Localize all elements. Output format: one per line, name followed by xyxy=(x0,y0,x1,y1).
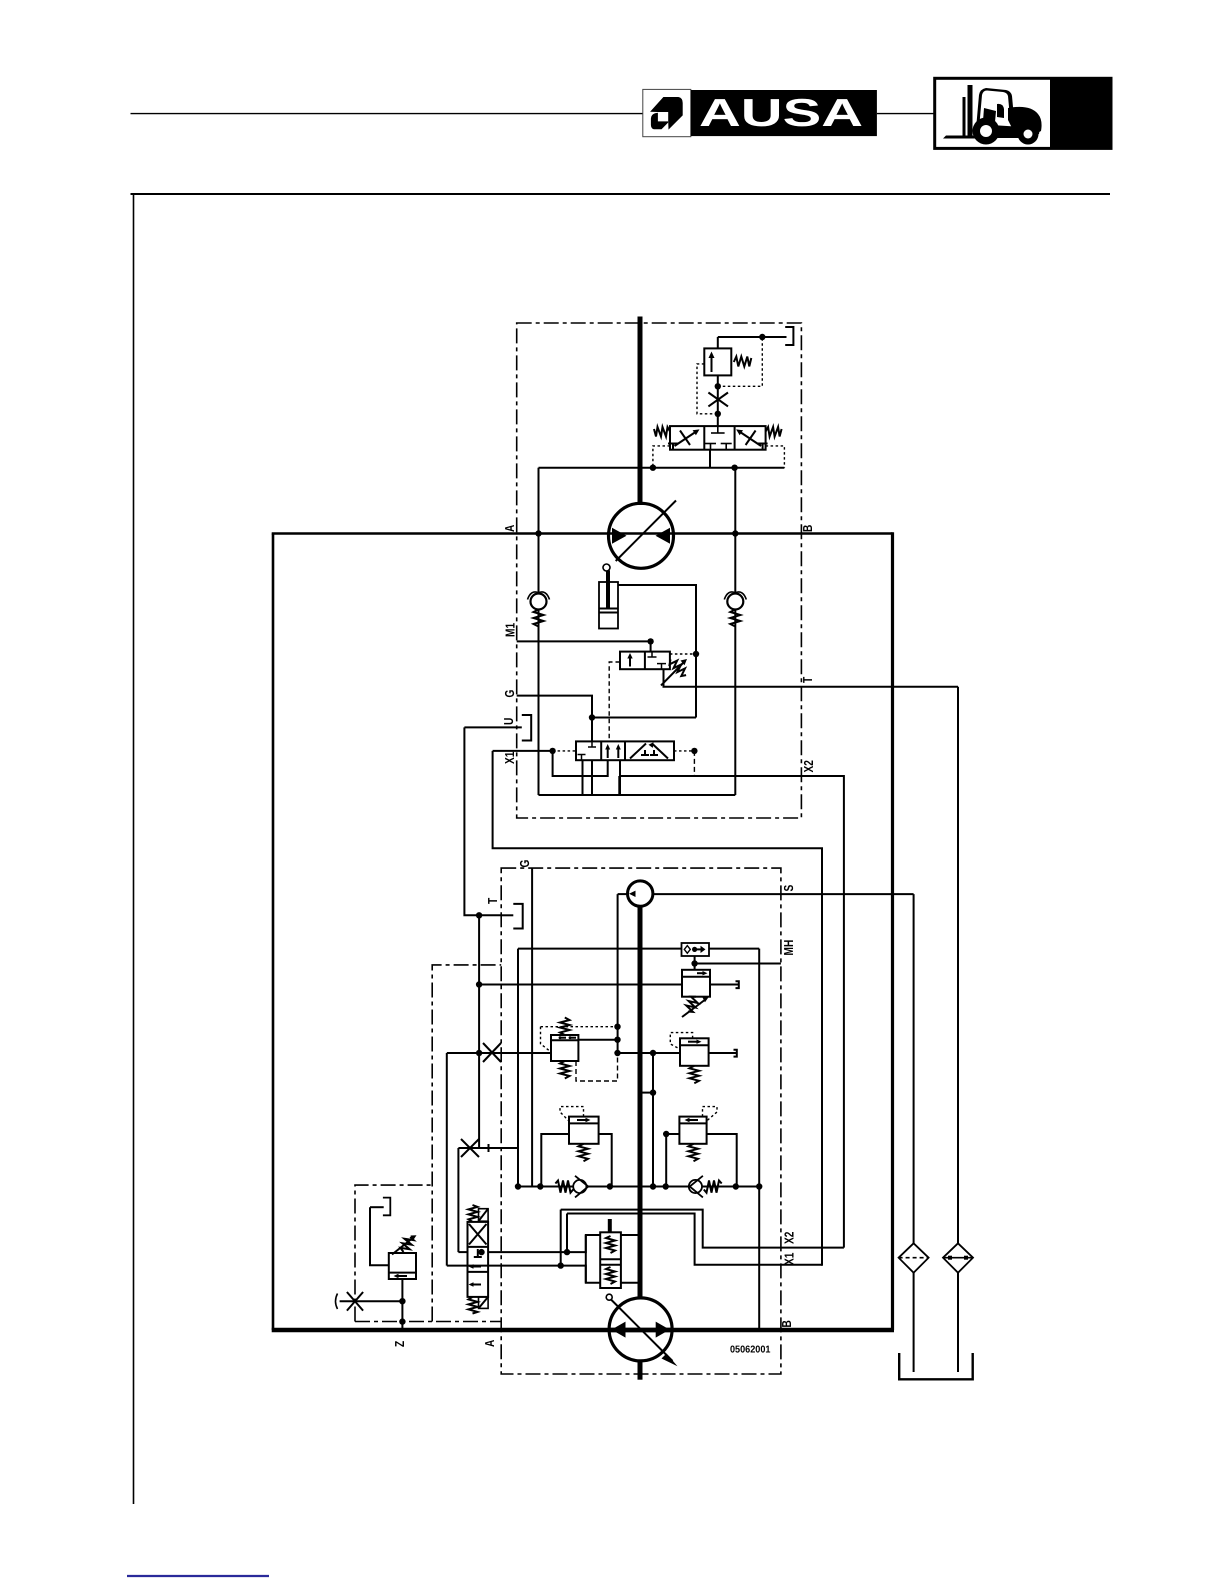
pump control feed lines xyxy=(488,1251,567,1253)
svg-text:B: B xyxy=(779,1320,794,1327)
pilot line to tank bracket (dotted) xyxy=(718,337,763,386)
servo cylinder body xyxy=(599,582,618,629)
node X2 pilot xyxy=(691,748,697,754)
flushing valve outlet to T xyxy=(664,669,959,687)
solenoid bottom spring xyxy=(469,1297,478,1314)
RV1 internal arrow xyxy=(709,352,715,373)
svg-text:05062001: 05062001 xyxy=(730,1345,771,1356)
charge pressure line xyxy=(447,1052,551,1054)
cross relief B side lines xyxy=(666,1134,679,1187)
swashplate pivot xyxy=(606,1294,612,1300)
V1 port drop xyxy=(709,450,711,468)
S line xyxy=(653,893,914,895)
V1 right pilot (dashed) xyxy=(766,446,785,468)
cross relief A spring xyxy=(579,1144,589,1162)
gallery right edge xyxy=(758,949,760,1330)
servo cylinder feed line xyxy=(618,585,696,718)
solenoid outlet dot xyxy=(478,1249,484,1255)
variable pump xyxy=(609,1298,672,1361)
hydraulic motor xyxy=(609,503,674,568)
bottom cell xyxy=(471,1284,481,1286)
cross relief A pilot dashed xyxy=(560,1107,584,1121)
regulator pilot dotted top xyxy=(541,1026,617,1028)
S return drop xyxy=(913,894,915,1244)
main loop left edge xyxy=(272,534,275,1331)
flushing valve left cell arrow xyxy=(627,653,632,667)
flushing valve body xyxy=(620,652,670,670)
servo cylinder pivot xyxy=(603,564,610,571)
header nodes xyxy=(515,1183,521,1189)
charge pump left stub xyxy=(618,893,628,895)
check valve CV2 xyxy=(724,592,746,627)
cross relief A xyxy=(569,1117,599,1144)
charge pump arrow xyxy=(629,891,636,897)
U to T drain line xyxy=(464,727,500,915)
shift valve right cell cross arrows xyxy=(630,742,668,758)
V1 left spring xyxy=(654,427,670,437)
cooler 2 xyxy=(943,1243,973,1272)
motor shaft thick line xyxy=(638,317,643,506)
node charge line xyxy=(650,1050,656,1056)
X2 line corner drop xyxy=(539,776,620,795)
check valve CV1 xyxy=(528,592,550,627)
AUSA logo white box xyxy=(643,89,691,136)
relief valve RV1 body xyxy=(704,348,731,375)
pilot enclosure bottom edge xyxy=(355,1321,501,1323)
G line xyxy=(517,696,592,742)
RV1 remote pilot (dashed) xyxy=(697,364,718,414)
forklift pictogram box xyxy=(935,78,1111,148)
boost gallery top xyxy=(518,948,682,950)
X1 pilot line xyxy=(493,750,553,752)
shift valve drain drops xyxy=(582,760,584,795)
flushing valve spring xyxy=(670,660,687,677)
node B junction xyxy=(732,530,738,536)
shift valve body xyxy=(576,741,674,760)
V1 left cell metering arrow xyxy=(668,429,700,449)
node X1 xyxy=(549,748,555,754)
motor work line xyxy=(539,467,785,469)
U coupler line xyxy=(464,726,521,728)
pump control valve xyxy=(600,1232,621,1288)
svg-text:X2: X2 xyxy=(782,1232,797,1244)
T coupler lower xyxy=(513,904,522,929)
MH drain plug xyxy=(736,981,739,988)
drain header under shift valve xyxy=(539,794,736,796)
motor flow triangle right xyxy=(656,528,671,544)
main loop right edge xyxy=(891,532,894,1330)
X cell xyxy=(469,1224,487,1245)
B side riser xyxy=(734,468,736,534)
svg-text:X1: X1 xyxy=(782,1253,797,1265)
main loop A line xyxy=(272,532,893,535)
pump B line through xyxy=(610,1328,672,1333)
V1 left pilot (dashed) xyxy=(653,446,670,468)
AUSA logo icon xyxy=(650,97,683,130)
pilot relief valve xyxy=(389,1253,416,1279)
pilot supply left: coupler xyxy=(383,1198,390,1216)
regulator spring top xyxy=(560,1018,570,1036)
throttle on charge line xyxy=(483,1043,501,1062)
seat + operator xyxy=(983,108,996,122)
svg-text:U: U xyxy=(501,718,516,725)
MH valve spring xyxy=(684,995,700,1014)
gallery left edge xyxy=(517,949,519,1187)
AUSA logo black box xyxy=(691,90,877,136)
solenoid feed risers xyxy=(457,1148,459,1252)
shuttle outlet xyxy=(694,956,696,970)
shift valve left cell ports xyxy=(578,741,597,760)
footer blue rule xyxy=(127,1575,269,1577)
flushing valve proportional arrow xyxy=(661,659,687,685)
RV1 bottom pipe xyxy=(717,375,719,426)
drain throttle line xyxy=(458,1147,518,1149)
right valve pilot dashed xyxy=(670,1033,692,1049)
pump control bracket xyxy=(567,1235,600,1252)
engine shaft stub xyxy=(638,1360,643,1380)
pump enclosure (lower dash-dot box) xyxy=(501,868,781,1374)
svg-text:T: T xyxy=(485,898,500,904)
cross relief B xyxy=(679,1117,706,1144)
flushing valve right cell blocked ports xyxy=(648,652,667,670)
pilot relief outlet xyxy=(401,1279,403,1330)
header rule middle xyxy=(877,113,934,115)
X2 pilot dashed drop xyxy=(693,751,695,776)
mid cell xyxy=(477,1249,479,1257)
node above directional valve xyxy=(715,411,721,417)
directional valve V1 body xyxy=(670,426,766,450)
anticavitation check B xyxy=(689,1176,722,1198)
motor flow triangle left xyxy=(612,528,627,544)
filter 1 xyxy=(899,1243,929,1272)
X1 route lower xyxy=(567,1214,822,1265)
front wheel xyxy=(973,118,1000,145)
flushing valve right pilot tap (dotted) xyxy=(670,653,696,655)
V1 center cell blocked ports xyxy=(705,426,732,450)
svg-text:MH: MH xyxy=(781,940,796,956)
node right pilot xyxy=(731,465,737,471)
svg-text:AUSA: AUSA xyxy=(699,92,863,135)
main loop B line bottom xyxy=(272,1328,894,1333)
motor shaft diagonal xyxy=(616,501,676,562)
svg-text:M1: M1 xyxy=(503,623,518,637)
chassis xyxy=(975,124,1040,138)
G lower line xyxy=(531,868,533,1186)
shift valve mid cell arrows xyxy=(605,744,621,758)
svg-text:X1: X1 xyxy=(502,752,517,764)
filter 1 outlet xyxy=(913,1273,915,1372)
node A junction xyxy=(535,530,541,536)
check valve CV1 drop line xyxy=(538,534,540,796)
pressure regulator left xyxy=(551,1035,578,1061)
svg-text:S: S xyxy=(781,884,796,891)
transmission enclosure (upper dash-dot box) xyxy=(517,323,802,818)
regulator top tap xyxy=(578,1039,617,1041)
pilot relief spring xyxy=(399,1235,414,1254)
fork base xyxy=(943,136,983,139)
servo cylinder piston xyxy=(599,608,618,610)
pump triangle left xyxy=(612,1322,626,1338)
node on relief supply line xyxy=(759,334,765,340)
check valve CV2 drop line xyxy=(734,534,736,796)
X1 interconnect xyxy=(493,751,822,1266)
coupler feed xyxy=(370,1206,384,1208)
charge pump drain drop xyxy=(617,894,619,1053)
shift valve right pilot dotted xyxy=(674,750,694,752)
T return drop xyxy=(957,687,959,1244)
T drain down leg xyxy=(479,915,518,1148)
pump control right links xyxy=(621,1234,639,1236)
pump control feedback stub xyxy=(608,1219,612,1232)
svg-text:Z: Z xyxy=(392,1341,407,1347)
forklift pictogram xyxy=(943,85,1042,145)
throttle on RV1 drain xyxy=(708,393,728,407)
servo feed branch xyxy=(652,1053,654,1187)
node G branch xyxy=(589,714,595,720)
pump shaft thick line xyxy=(638,906,643,1299)
tank xyxy=(899,1353,973,1379)
X2 route lower xyxy=(561,1210,844,1248)
RV1 spring xyxy=(734,357,752,367)
charge pump circle xyxy=(628,881,653,906)
V1 right cell metering arrow xyxy=(736,429,768,449)
cab frame xyxy=(976,88,1014,129)
svg-text:G: G xyxy=(502,690,517,698)
svg-text:T: T xyxy=(800,677,815,683)
svg-text:B: B xyxy=(800,525,815,532)
servo cylinder rod xyxy=(606,571,610,609)
cross relief A side lines xyxy=(541,1134,569,1187)
RV1 top pipe xyxy=(717,337,719,348)
node cylinder line tap xyxy=(693,651,699,657)
X1 pilot dotted to shift valve xyxy=(553,750,576,752)
U coupler xyxy=(522,715,531,741)
MH pressure valve xyxy=(682,970,710,997)
header rule left xyxy=(131,113,643,115)
svg-text:X2: X2 xyxy=(801,760,816,772)
node M1 to flushing valve xyxy=(647,638,653,644)
rear wheel xyxy=(1018,124,1039,145)
svg-text:G: G xyxy=(517,860,532,868)
svg-text:A: A xyxy=(482,1339,497,1347)
solenoid bottom coil xyxy=(479,1297,489,1309)
flushing valve pilot (dashed) xyxy=(609,662,620,741)
cross relief B spring xyxy=(689,1144,699,1162)
cross relief B pilot dashed xyxy=(703,1107,718,1121)
node below RV1 xyxy=(715,383,721,389)
V1 right spring xyxy=(766,427,782,437)
shuttle valve xyxy=(682,943,710,956)
MH drain line xyxy=(479,984,682,986)
hood/body xyxy=(1008,107,1042,136)
pilot solenoid valve xyxy=(468,1222,489,1297)
X2 line xyxy=(619,776,844,1248)
solenoid top coil xyxy=(479,1209,489,1222)
A side riser xyxy=(538,468,540,534)
left pilot enclosure xyxy=(355,1185,432,1321)
right valve outlet plug xyxy=(709,1052,737,1054)
solenoid top spring xyxy=(469,1205,478,1222)
V1 cell dividers xyxy=(703,426,705,450)
relief supply line xyxy=(718,336,787,338)
bleed throttle xyxy=(336,1292,403,1311)
shift valve under-route X1 xyxy=(553,751,608,776)
svg-text:A: A xyxy=(502,524,517,532)
regulator pilot dashed bottom xyxy=(576,1053,618,1081)
right valve spring xyxy=(690,1066,700,1084)
M1 line xyxy=(517,640,651,642)
node left pilot xyxy=(650,465,656,471)
tall pilot enclosure xyxy=(432,965,501,1322)
pressure valve right xyxy=(680,1038,709,1066)
tank bracket symbol xyxy=(785,327,793,345)
MH spring adjust arrow xyxy=(682,997,709,1017)
pump triangle right xyxy=(656,1322,670,1338)
swashplate arm xyxy=(611,1300,673,1362)
page frame top edge xyxy=(131,193,1111,195)
G branch to cylinder feed xyxy=(592,717,696,719)
anticavitation header xyxy=(518,1186,759,1188)
regulator spring bottom xyxy=(560,1061,570,1079)
anticavitation check A xyxy=(555,1176,588,1198)
page frame left edge xyxy=(133,194,135,1504)
cooler outlet xyxy=(957,1273,959,1372)
